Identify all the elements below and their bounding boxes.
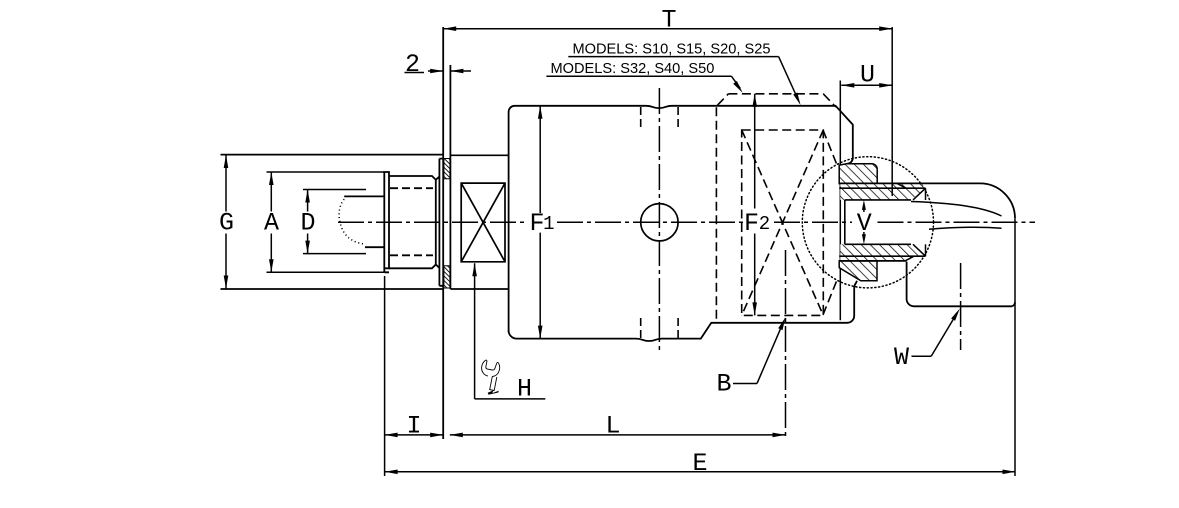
svg-text:V: V <box>857 209 872 238</box>
svg-text:MODELS: S32, S40, S50: MODELS: S32, S40, S50 <box>551 61 715 77</box>
svg-text:B: B <box>716 370 731 399</box>
svg-text:U: U <box>860 61 875 90</box>
svg-text:MODELS: S10, S15, S20, S25: MODELS: S10, S15, S20, S25 <box>573 42 771 58</box>
svg-text:D: D <box>300 209 315 238</box>
svg-text:I: I <box>406 412 421 441</box>
svg-text:F: F <box>744 209 759 238</box>
svg-text:L: L <box>605 412 620 441</box>
svg-text:H: H <box>517 375 532 404</box>
svg-text:E: E <box>692 449 707 478</box>
svg-text:2: 2 <box>405 50 420 79</box>
svg-text:2: 2 <box>759 213 770 235</box>
svg-text:W: W <box>894 343 909 372</box>
svg-text:T: T <box>661 6 676 35</box>
svg-text:G: G <box>219 209 234 238</box>
svg-text:1: 1 <box>543 213 554 235</box>
svg-text:A: A <box>264 209 279 238</box>
